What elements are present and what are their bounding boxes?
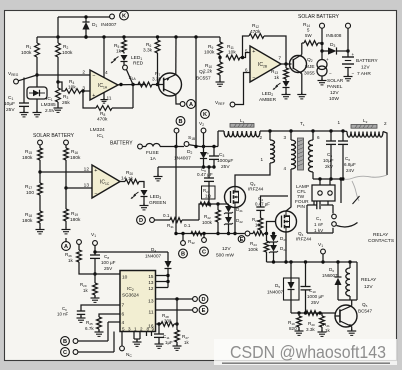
transistor Q5 BC547 xyxy=(335,305,357,327)
lamp connector pins xyxy=(319,179,321,185)
svg-text:2.2k: 2.2k xyxy=(203,69,213,75)
svg-text:1: 1 xyxy=(134,327,137,332)
svg-text:13: 13 xyxy=(148,299,154,305)
svg-text:10: 10 xyxy=(255,223,260,228)
op-amp IC2B xyxy=(250,46,281,82)
zener D23 xyxy=(273,234,275,236)
wire pin12 xyxy=(40,171,92,173)
svg-text:6.7k: 6.7k xyxy=(85,326,94,331)
terminal solar batt - xyxy=(64,140,69,145)
node B mid xyxy=(182,234,184,241)
svg-text:100k: 100k xyxy=(204,50,215,56)
capacitor C7 1nF 1kV xyxy=(316,201,318,209)
terminal to K xyxy=(110,14,115,19)
wire Q5 emitter ground xyxy=(351,327,353,331)
zener D22 xyxy=(228,213,230,217)
svg-text:6: 6 xyxy=(122,312,125,318)
solar panel symbol xyxy=(321,51,323,60)
wire staircase 1 up xyxy=(199,204,229,220)
capacitor C1 10uF xyxy=(23,78,25,104)
IC2 bottom pin 5 NC xyxy=(121,332,123,347)
svg-text:15: 15 xyxy=(148,274,154,279)
wire pin13 xyxy=(66,187,92,189)
svg-text:500 mW: 500 mW xyxy=(216,253,234,259)
ground LED2 xyxy=(285,93,287,95)
svg-text:SG3624: SG3624 xyxy=(122,293,139,298)
IC2 pin stubs right cluster xyxy=(156,275,169,277)
capacitor C4 0.47uF xyxy=(261,196,289,207)
svg-text:100 μF: 100 μF xyxy=(101,260,116,265)
resistor R4 10k xyxy=(58,82,65,91)
svg-text:RELAY: RELAY xyxy=(361,277,377,283)
svg-text:CSDN @whaosoft143: CSDN @whaosoft143 xyxy=(230,342,386,362)
wire pin4 xyxy=(108,321,120,323)
svg-text:2.5V: 2.5V xyxy=(45,108,56,114)
svg-text:1 kV: 1 kV xyxy=(314,228,324,233)
svg-text:820: 820 xyxy=(289,326,297,331)
LED3 green xyxy=(141,190,148,196)
svg-text:+: + xyxy=(352,52,355,57)
transistor Q2 MJE3055 xyxy=(290,56,307,73)
svg-text:100k: 100k xyxy=(202,220,213,225)
wire Q4 drain from T1 xyxy=(285,210,287,212)
svg-text:470k: 470k xyxy=(97,117,108,123)
node D right xyxy=(199,295,208,304)
svg-text:25V: 25V xyxy=(221,164,230,170)
svg-text:1Ω: 1Ω xyxy=(205,194,211,199)
T1 secondary winding xyxy=(312,131,314,140)
ground C1 xyxy=(23,111,25,113)
svg-text:B: B xyxy=(63,339,67,345)
svg-text:3: 3 xyxy=(283,135,286,140)
wire pin7 with C6 10nF xyxy=(81,305,120,311)
svg-text:2kV: 2kV xyxy=(325,164,334,169)
svg-text:1k: 1k xyxy=(274,75,280,81)
wire Q4 source down xyxy=(285,232,287,262)
svg-text:7: 7 xyxy=(278,56,281,62)
svg-text:4: 4 xyxy=(105,70,108,76)
switch S1B xyxy=(184,142,189,147)
diode D3 IN5408 xyxy=(322,50,328,52)
svg-text:5W: 5W xyxy=(305,33,312,38)
wire battery vertical xyxy=(347,28,349,56)
zener D21 xyxy=(228,204,230,206)
svg-text:12V: 12V xyxy=(222,246,231,252)
resistor R19 180k xyxy=(65,188,67,209)
svg-text:4: 4 xyxy=(283,166,286,171)
svg-text:1A: 1A xyxy=(150,156,157,162)
svg-text:K: K xyxy=(203,112,207,118)
wire VREG to node xyxy=(18,75,37,81)
wire pin11 out xyxy=(156,309,193,311)
terminal battery xyxy=(346,23,351,28)
node K mid xyxy=(201,110,210,119)
svg-text:BC557: BC557 xyxy=(196,76,211,82)
capacitor C11 1uF xyxy=(158,324,160,334)
svg-text:100k: 100k xyxy=(248,247,259,252)
wire relay feed xyxy=(340,179,342,203)
op-amp IC1C xyxy=(92,165,120,198)
svg-text:25V: 25V xyxy=(104,266,113,271)
svg-text:180k: 180k xyxy=(22,155,33,161)
svg-text:3.3k: 3.3k xyxy=(306,327,315,332)
resistor R29 1k below C8 xyxy=(94,274,96,283)
wire Q4 gate xyxy=(267,222,276,234)
terminal pin11 xyxy=(193,308,198,313)
svg-text:IRFZ44: IRFZ44 xyxy=(296,237,312,242)
diode D2 1N4007 xyxy=(203,147,205,153)
LED1 red xyxy=(121,55,128,61)
svg-text:1: 1 xyxy=(337,120,340,125)
resistor inline to Q4 gate node xyxy=(250,233,253,235)
watermark band xyxy=(214,339,397,365)
T1 winding 1-2 bottom lead xyxy=(235,163,270,187)
node D gate drive xyxy=(137,216,146,225)
MOSFET Q4 IRFZ44 xyxy=(276,211,297,232)
svg-text:PIN: PIN xyxy=(297,204,306,210)
IC2 bottom pins 1 2 ground xyxy=(133,332,135,340)
resistor R25 1ohm body xyxy=(200,202,211,206)
svg-text:12V: 12V xyxy=(364,284,373,290)
svg-text:100k: 100k xyxy=(21,50,32,56)
svg-text:24V: 24V xyxy=(346,168,355,173)
wire R28 to pin13 line xyxy=(176,299,178,324)
svg-text:4: 4 xyxy=(122,320,125,326)
resistor R6 3.3k xyxy=(157,37,159,40)
svg-text:RELAY: RELAY xyxy=(373,232,389,238)
node A left xyxy=(65,238,67,242)
wire Q2 collector up xyxy=(301,43,303,55)
inductor L2 xyxy=(351,125,377,129)
diode D6 1N4007 flyback xyxy=(337,262,339,277)
svg-text:SOLAR: SOLAR xyxy=(327,78,344,84)
svg-text:6.8μF: 6.8μF xyxy=(344,162,356,167)
LED2 amber xyxy=(283,81,290,87)
relay contact terminals xyxy=(332,214,337,219)
wire pin13 out xyxy=(156,298,193,300)
svg-text:180k: 180k xyxy=(70,217,81,223)
wire op-amp output xyxy=(118,84,146,86)
svg-text:10: 10 xyxy=(122,275,128,281)
svg-text:2: 2 xyxy=(82,70,85,76)
terminal A xyxy=(180,102,185,107)
resistor R23 10 xyxy=(258,218,263,230)
svg-text:10k: 10k xyxy=(228,50,236,56)
switch S1A xyxy=(123,65,128,70)
watermark underline xyxy=(222,362,390,364)
wire battery rail vertical xyxy=(195,37,197,147)
svg-text:E: E xyxy=(240,237,244,243)
resistor R10 2.2k xyxy=(219,58,221,63)
svg-text:1000μF: 1000μF xyxy=(217,158,233,164)
T1 winding 3-4 xyxy=(290,131,292,140)
svg-text:−: − xyxy=(352,71,355,76)
resistor R14 5W xyxy=(302,42,304,44)
capacitor C5 xyxy=(330,131,332,141)
resistor R27 1k xyxy=(176,324,178,330)
node C mid xyxy=(203,234,205,238)
wire Q3 source xyxy=(234,208,236,234)
wire long vertical to gate rail xyxy=(175,147,177,234)
resistor R22 100k xyxy=(217,204,219,210)
terminal solar xyxy=(320,23,325,28)
node C bottom xyxy=(61,348,70,357)
svg-text:2: 2 xyxy=(384,121,387,126)
svg-text:LM385: LM385 xyxy=(41,102,56,108)
svg-text:12V: 12V xyxy=(330,90,339,96)
svg-text:26k: 26k xyxy=(62,100,70,106)
wire B to IC xyxy=(78,340,108,342)
wire VREF to pin6 xyxy=(235,73,250,105)
svg-text:1k: 1k xyxy=(68,258,74,263)
svg-text:180k: 180k xyxy=(70,155,81,161)
terminal gate drive 1 xyxy=(150,218,155,223)
svg-text:+: + xyxy=(207,152,210,157)
svg-text:12: 12 xyxy=(84,167,90,173)
wire Q1 collector to A xyxy=(176,95,180,105)
wire battery node xyxy=(200,146,218,148)
svg-text:IRFZ44: IRFZ44 xyxy=(248,187,264,192)
resistor R2 100k xyxy=(57,42,59,44)
wire top rail inverter xyxy=(260,130,343,132)
resistor R20b 3.3k inline xyxy=(306,311,318,316)
svg-text:9: 9 xyxy=(152,327,155,332)
wire top bus (D1 cathode rail) xyxy=(58,16,110,18)
svg-text:1μF: 1μF xyxy=(165,340,173,345)
diode D1 xyxy=(85,17,87,22)
resistor R25 1ohm box xyxy=(202,186,216,199)
svg-text:B: B xyxy=(181,252,185,258)
IC2 SG3524 body xyxy=(120,271,156,332)
svg-text:BC547: BC547 xyxy=(358,309,372,314)
ground LED3 xyxy=(143,204,145,206)
svg-text:AMBER: AMBER xyxy=(259,97,277,103)
capacitor C8 100uF xyxy=(90,254,100,256)
svg-text:6: 6 xyxy=(317,135,320,140)
relay contact arm xyxy=(337,223,358,227)
svg-text:8: 8 xyxy=(147,327,150,332)
gate rail xyxy=(176,233,245,235)
wire pin10 xyxy=(95,273,120,275)
wire base rail xyxy=(291,312,335,314)
svg-text:1N6007: 1N6007 xyxy=(322,273,338,278)
terminal solar batt + xyxy=(38,140,43,145)
wire Q2 emitter ground xyxy=(301,74,303,95)
T1 core xyxy=(298,138,304,170)
svg-text:IN4007: IN4007 xyxy=(101,22,117,28)
svg-text:13: 13 xyxy=(148,280,154,285)
svg-text:2: 2 xyxy=(259,135,262,140)
ground battery xyxy=(347,75,349,77)
svg-text:11: 11 xyxy=(107,96,112,102)
svg-text:RED: RED xyxy=(133,61,144,67)
wire C7 loop xyxy=(313,201,315,205)
svg-text:11: 11 xyxy=(149,310,154,316)
terminal S1B top xyxy=(174,128,179,133)
terminal R26 top xyxy=(77,240,82,245)
svg-text:A: A xyxy=(189,102,193,108)
wire solar vertical xyxy=(321,28,323,51)
diode D5 1N4007 box xyxy=(284,278,300,300)
svg-text:1k: 1k xyxy=(116,49,122,55)
svg-text:CONTACTS: CONTACTS xyxy=(368,238,394,244)
wire L2 right down xyxy=(383,132,387,176)
relay coil 12V xyxy=(349,262,351,268)
diode D4 1N4007 xyxy=(167,252,169,261)
ground R3 xyxy=(57,106,59,108)
resistor R19b 820 xyxy=(298,313,300,316)
op-amp IC1A xyxy=(90,70,118,100)
wire op-amp pin2 input xyxy=(37,74,90,76)
resistor R11 10k xyxy=(226,55,240,60)
resistor R18 180k xyxy=(39,199,41,211)
battery symbol 12V xyxy=(342,56,354,58)
svg-text:BATTERY: BATTERY xyxy=(356,58,378,64)
svg-text:1000 μF: 1000 μF xyxy=(307,294,324,299)
resistor R1 100k xyxy=(36,37,38,43)
wire Q1 emitter to rail xyxy=(175,37,177,75)
feedback resistor R6b 470k xyxy=(83,91,96,108)
svg-text:10 nF: 10 nF xyxy=(57,312,69,317)
node K xyxy=(120,11,129,20)
wire C to IC xyxy=(78,351,114,353)
IC2 bottom pins 8 9 xyxy=(146,332,148,337)
svg-text:C: C xyxy=(202,250,206,256)
svg-text:1k: 1k xyxy=(83,288,88,293)
resistor R16 180k xyxy=(65,145,67,148)
wire R2 top lead xyxy=(57,17,59,43)
resistor R24 100k vertical xyxy=(266,234,268,242)
lamp connector box xyxy=(312,185,335,201)
svg-text:FUSE: FUSE xyxy=(146,150,159,156)
svg-text:13: 13 xyxy=(84,183,90,189)
T1 winding 1-2 xyxy=(269,131,271,140)
svg-text:D: D xyxy=(201,297,205,303)
svg-text:180k: 180k xyxy=(22,218,33,224)
svg-text:1k: 1k xyxy=(325,328,331,333)
wire lamp rail xyxy=(313,178,343,180)
svg-text:−: − xyxy=(252,75,255,81)
svg-text:1: 1 xyxy=(260,157,263,162)
ground LM385 xyxy=(36,111,38,113)
svg-text:+: + xyxy=(326,57,329,62)
resistor R20 1k xyxy=(120,181,125,183)
svg-text:7 AHR: 7 AHR xyxy=(357,71,371,77)
svg-text:10W: 10W xyxy=(329,96,339,102)
wire D4 rail xyxy=(95,251,168,253)
capacitor C10 1000uF xyxy=(305,262,307,287)
capacitor C6 xyxy=(342,131,344,141)
T1 winding 3-4 bottom lead xyxy=(286,169,291,211)
pin 11 ground xyxy=(103,93,105,99)
MOSFET Q3 IRFZ44 xyxy=(225,187,246,208)
resistor R21 1k xyxy=(321,313,323,316)
svg-text:100: 100 xyxy=(26,190,34,196)
svg-text:3: 3 xyxy=(82,86,85,92)
svg-text:1k: 1k xyxy=(128,176,134,182)
svg-text:SOLAR BATTERY: SOLAR BATTERY xyxy=(33,133,75,139)
ground R10 xyxy=(219,80,221,82)
diode D5 xyxy=(290,262,292,282)
svg-text:+: + xyxy=(94,168,97,174)
resistor R15 180k xyxy=(39,145,41,148)
resistor R32 0.1 inline xyxy=(191,232,202,236)
svg-text:3.3k: 3.3k xyxy=(143,48,153,54)
svg-text:1N4007: 1N4007 xyxy=(267,290,284,295)
svg-text:3: 3 xyxy=(128,327,131,332)
fuse 1A xyxy=(142,146,146,148)
resistor R5 1k xyxy=(123,37,125,40)
svg-text:1N4007: 1N4007 xyxy=(145,254,162,259)
svg-text:10k: 10k xyxy=(68,85,76,91)
wire pin6 with R25 6.7k xyxy=(99,314,120,317)
relay right side xyxy=(356,262,358,300)
svg-text:A: A xyxy=(64,244,68,250)
svg-text:PANEL: PANEL xyxy=(327,84,343,90)
node B bottom xyxy=(61,337,70,346)
svg-text:1 nF: 1 nF xyxy=(314,222,323,227)
wire op-amp output to Q2 xyxy=(281,63,292,65)
resistor R17 100 xyxy=(39,172,41,183)
svg-text:470k: 470k xyxy=(250,29,261,35)
svg-text:GREEN: GREEN xyxy=(149,200,167,206)
node B xyxy=(176,117,185,126)
svg-text:+: + xyxy=(92,93,95,99)
svg-text:100k: 100k xyxy=(62,50,73,56)
inductor L1 xyxy=(217,131,219,147)
capacitor C3 1000uF xyxy=(213,147,215,157)
svg-text:SOLAR BATTERY: SOLAR BATTERY xyxy=(298,14,340,20)
capacitor C9 0.47uF xyxy=(208,167,210,178)
svg-text:10μF: 10μF xyxy=(323,158,334,163)
svg-text:E: E xyxy=(202,308,206,314)
svg-text:−: − xyxy=(92,73,95,79)
transistor Q1 BC557 xyxy=(158,84,165,86)
node A xyxy=(187,100,196,109)
node E right xyxy=(199,306,208,315)
svg-text:+: + xyxy=(252,49,255,55)
svg-text:B: B xyxy=(178,119,182,125)
wire V1 to C8 xyxy=(94,245,96,255)
wire V1 rail relay xyxy=(267,261,358,263)
resistor R13 1k xyxy=(285,64,287,68)
svg-text:3055: 3055 xyxy=(304,71,315,77)
terminal pin13 xyxy=(193,297,198,302)
resistor R31 0.1 inline xyxy=(154,219,170,221)
wire to node B xyxy=(174,145,177,148)
resistor R7 3.3k xyxy=(138,82,152,87)
svg-text:1k: 1k xyxy=(184,340,189,345)
svg-text:330: 330 xyxy=(164,319,172,324)
svg-text:5: 5 xyxy=(122,327,125,332)
svg-text:C: C xyxy=(63,350,67,356)
svg-text:IN5408: IN5408 xyxy=(326,33,342,39)
ground solar panel xyxy=(321,79,323,81)
svg-text:0.47 μF: 0.47 μF xyxy=(255,202,270,207)
svg-text:0.1: 0.1 xyxy=(163,213,170,218)
svg-text:12: 12 xyxy=(148,286,154,291)
resistor R28 330 xyxy=(156,323,162,325)
shunt reference IC1 LM385 xyxy=(36,75,38,87)
svg-text:LM324: LM324 xyxy=(90,127,105,133)
svg-text:D: D xyxy=(139,218,143,224)
resistor R26 1k xyxy=(78,244,80,250)
svg-text:10μF: 10μF xyxy=(4,101,15,107)
T1 secondary bottom lead xyxy=(312,172,314,179)
svg-text:25V: 25V xyxy=(311,300,320,305)
svg-text:0.1: 0.1 xyxy=(184,223,191,228)
svg-text:−: − xyxy=(94,191,97,197)
